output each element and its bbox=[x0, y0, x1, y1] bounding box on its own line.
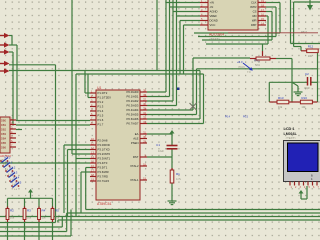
svg-text:P0.5: P0.5 bbox=[243, 116, 249, 119]
svg-text:P0.1/AD1: P0.1/AD1 bbox=[127, 95, 139, 99]
svg-text:P0.6/AD6: P0.6/AD6 bbox=[127, 117, 139, 121]
svg-text:10k: 10k bbox=[42, 216, 47, 220]
svg-text:4.7k: 4.7k bbox=[176, 177, 182, 181]
svg-text:10k: 10k bbox=[308, 54, 313, 58]
svg-text:RD: RD bbox=[252, 14, 256, 18]
svg-text:DB6: DB6 bbox=[1, 145, 7, 149]
svg-text:30pF: 30pF bbox=[304, 86, 310, 90]
svg-text:P1.6: P1.6 bbox=[98, 118, 104, 122]
svg-text:RST: RST bbox=[133, 155, 139, 159]
svg-text:R13: R13 bbox=[278, 96, 284, 100]
svg-text:CLK: CLK bbox=[251, 1, 257, 5]
svg-text:10uF: 10uF bbox=[158, 149, 164, 153]
svg-text:DB2: DB2 bbox=[1, 127, 7, 131]
svg-text:AGND: AGND bbox=[210, 10, 218, 14]
svg-text:+5.0: +5.0 bbox=[237, 60, 243, 64]
svg-text:LCD 1: LCD 1 bbox=[284, 127, 295, 131]
svg-text:CS: CS bbox=[253, 10, 257, 14]
svg-text:R2: R2 bbox=[10, 209, 14, 213]
svg-text:-IN: -IN bbox=[210, 5, 214, 9]
svg-text:R1: R1 bbox=[176, 172, 180, 176]
svg-text:DB4: DB4 bbox=[1, 136, 7, 140]
svg-text:P1.7: P1.7 bbox=[98, 123, 104, 127]
svg-text:ALE: ALE bbox=[133, 137, 138, 141]
svg-text:DB5: DB5 bbox=[1, 141, 7, 145]
svg-text:P1.3: P1.3 bbox=[98, 105, 104, 109]
svg-text:VREF: VREF bbox=[210, 14, 218, 18]
svg-text:P0.0/AD0: P0.0/AD0 bbox=[127, 90, 139, 94]
svg-text:P0.5/AD5: P0.5/AD5 bbox=[127, 113, 139, 117]
svg-text:P3.0/RXD: P3.0/RXD bbox=[98, 143, 110, 147]
svg-text:P3.5/T1: P3.5/T1 bbox=[98, 166, 108, 170]
svg-text:K1.1: K1.1 bbox=[7, 161, 13, 165]
svg-text:PSEN: PSEN bbox=[131, 141, 139, 145]
svg-text:8:: 8: bbox=[311, 174, 313, 178]
svg-text:K1.4: K1.4 bbox=[14, 176, 20, 180]
svg-text:P3.2/INT0: P3.2/INT0 bbox=[98, 152, 111, 156]
svg-text:P0.4: P0.4 bbox=[225, 116, 231, 119]
svg-text:P0.7/AD7: P0.7/AD7 bbox=[127, 122, 139, 126]
svg-text:VCC: VCC bbox=[210, 23, 216, 27]
svg-text:P1.0/T2: P1.0/T2 bbox=[98, 91, 108, 95]
svg-text:R4: R4 bbox=[42, 209, 46, 213]
svg-text:K1.5: K1.5 bbox=[16, 181, 22, 185]
svg-text:P1.4: P1.4 bbox=[98, 109, 104, 113]
svg-text:P2.7/A15: P2.7/A15 bbox=[98, 179, 110, 183]
svg-text:K1.2: K1.2 bbox=[10, 166, 16, 170]
svg-text:P1.5: P1.5 bbox=[98, 114, 104, 118]
svg-text:DB1: DB1 bbox=[1, 123, 7, 127]
svg-text:K1.3: K1.3 bbox=[12, 171, 18, 175]
svg-text:P3.1/TXD: P3.1/TXD bbox=[98, 148, 110, 152]
svg-text:10k: 10k bbox=[278, 105, 283, 109]
svg-text:P3.6/WR: P3.6/WR bbox=[98, 170, 109, 174]
svg-text:1:: 1: bbox=[311, 177, 313, 181]
svg-text:P0.3/AD3: P0.3/AD3 bbox=[127, 104, 139, 108]
svg-text:XTAL1: XTAL1 bbox=[130, 178, 139, 182]
svg-text:<TEXT>: <TEXT> bbox=[286, 136, 297, 140]
svg-text:P3.4/T0: P3.4/T0 bbox=[98, 161, 108, 165]
svg-text:C2: C2 bbox=[305, 72, 309, 76]
svg-text:U1: U1 bbox=[97, 86, 102, 90]
svg-text:P0.4/AD4: P0.4/AD4 bbox=[127, 108, 139, 112]
svg-text:RV1: RV1 bbox=[254, 59, 260, 63]
svg-text:P3.7/RD: P3.7/RD bbox=[98, 175, 109, 179]
svg-text:DB0: DB0 bbox=[1, 118, 7, 122]
svg-text:+IN: +IN bbox=[210, 1, 214, 5]
svg-text:10k: 10k bbox=[301, 105, 306, 109]
svg-text:XTAL2: XTAL2 bbox=[130, 164, 139, 168]
svg-text:10k: 10k bbox=[55, 216, 60, 220]
svg-text:WR: WR bbox=[252, 19, 257, 23]
svg-text:<TEXT>: <TEXT> bbox=[209, 37, 220, 41]
svg-text:DB7: DB7 bbox=[251, 23, 257, 27]
svg-text:P1.1/T2EX: P1.1/T2EX bbox=[98, 96, 112, 100]
svg-text:R10: R10 bbox=[301, 96, 307, 100]
svg-text:R5: R5 bbox=[55, 209, 59, 213]
svg-text:DGND: DGND bbox=[210, 19, 218, 23]
svg-text:P0.2/AD2: P0.2/AD2 bbox=[127, 99, 139, 103]
svg-text:10k: 10k bbox=[27, 216, 32, 220]
svg-text:ADC0804: ADC0804 bbox=[209, 33, 224, 37]
svg-text:(70.0): (70.0) bbox=[238, 66, 245, 69]
svg-text:P1.2: P1.2 bbox=[98, 100, 104, 104]
svg-text:7.0: 7.0 bbox=[247, 71, 251, 74]
svg-text:K1.0: K1.0 bbox=[5, 156, 11, 160]
svg-text:EA: EA bbox=[135, 132, 139, 136]
svg-text:R12: R12 bbox=[308, 45, 314, 49]
svg-text:P2.0/A8: P2.0/A8 bbox=[98, 139, 108, 143]
svg-text:AT89C51: AT89C51 bbox=[97, 202, 112, 206]
svg-text:50%: 50% bbox=[255, 64, 261, 67]
svg-text:C1: C1 bbox=[156, 143, 160, 147]
svg-text:DB3: DB3 bbox=[1, 132, 7, 136]
svg-text:10k: 10k bbox=[10, 216, 15, 220]
svg-text:INTR: INTR bbox=[250, 5, 257, 9]
svg-text:P3.3/INT1: P3.3/INT1 bbox=[98, 157, 111, 161]
svg-text:R3: R3 bbox=[27, 209, 31, 213]
